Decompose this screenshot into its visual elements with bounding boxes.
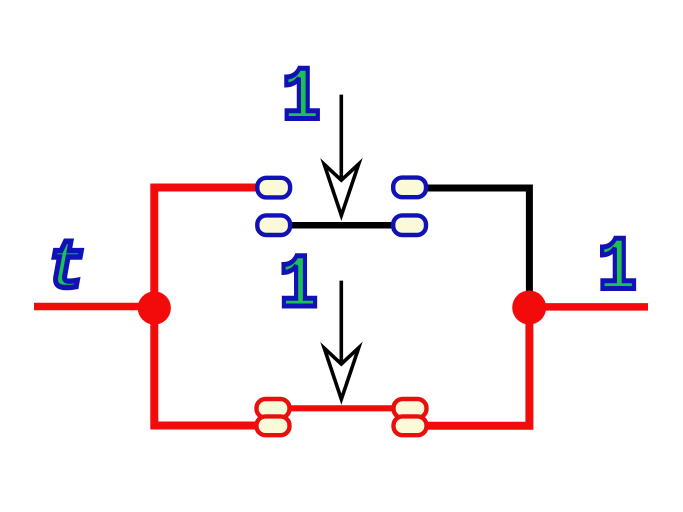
switch S1 bridge bar (open, black) [274, 222, 410, 229]
label 1 (output value) [598, 226, 637, 312]
switch S2 fixed contact right pad [394, 416, 427, 435]
wire: left branch red loop (up to NC contact, down to NO contact) [154, 188, 258, 426]
wire: lower right red segment from NO contact to right node [426, 308, 529, 426]
switch S1 bridge contact left pad [257, 215, 290, 235]
control arrow S2 head [324, 348, 359, 399]
switch S1 bridge contact right pad [393, 215, 426, 235]
switch S1 fixed contact right pad [393, 178, 426, 198]
node A: left junction dot [138, 291, 171, 324]
node B: right junction dot [512, 291, 546, 325]
switch S1 fixed contact left pad [257, 178, 290, 198]
label 1 (lower control value) [279, 243, 318, 330]
switch S2 bridge bar (closed, red) [274, 405, 410, 411]
control arrow S2 shaft [339, 281, 343, 365]
switch S2 fixed contact left pad [257, 416, 290, 435]
label t (input name) [47, 231, 86, 309]
control arrow S1 head [324, 164, 359, 215]
wire: input stub from label t to left node [34, 303, 156, 311]
svg-text:1: 1 [598, 226, 637, 312]
label 1 (upper control value) [282, 55, 321, 142]
switch S2 bridge contact right pad [394, 399, 427, 418]
svg-text:t: t [47, 231, 86, 309]
svg-text:1: 1 [279, 243, 318, 330]
switch S2 bridge contact left pad [257, 399, 290, 418]
wire: black segment from NC contact to right node [426, 188, 529, 300]
control arrow S1 shaft [339, 95, 343, 180]
svg-text:1: 1 [282, 55, 321, 142]
wire: output stub from right node to label 1 [529, 303, 648, 311]
